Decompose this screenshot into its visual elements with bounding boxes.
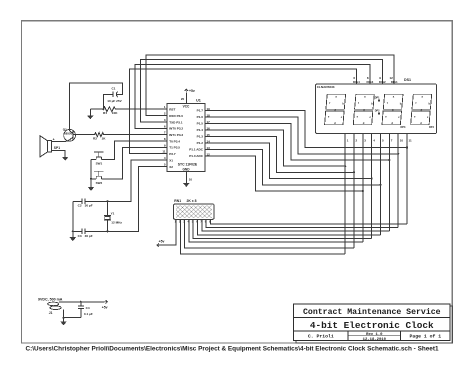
svg-text:10K: 10K <box>112 111 118 115</box>
svg-text:f: f <box>329 101 330 105</box>
svg-text:Y1: Y1 <box>111 211 115 215</box>
wire RN1 pin 5 to segment C <box>193 219 372 238</box>
svg-text:4-bit Electronic Clock: 4-bit Electronic Clock <box>310 320 434 331</box>
node C4 top junction dot <box>80 301 82 303</box>
svg-text:C2: C2 <box>78 204 82 208</box>
svg-text:C4: C4 <box>86 306 90 310</box>
svg-text:RN1: RN1 <box>174 199 181 203</box>
node C3 left junction dot <box>72 230 74 232</box>
power +5v at U1 pin 20 <box>181 89 195 101</box>
wire P1.5 to segment B pin 7 <box>205 123 389 160</box>
node segment E junction dot <box>344 165 346 167</box>
wire P1.1 to segment G pin 5 <box>205 149 381 185</box>
pin 8 DIG3 label <box>367 76 374 84</box>
capacitor C3 <box>73 229 108 238</box>
svg-text:DIG3: DIG3 <box>367 80 374 84</box>
svg-text:Rev 1.0: Rev 1.0 <box>366 333 383 337</box>
pin 4 X1 label <box>164 156 173 162</box>
display bottom pin number labels <box>347 138 412 142</box>
wire P1.2 to segment C pin 4 <box>205 143 372 179</box>
ground at R1 <box>87 109 94 119</box>
pin 16 P1.4 label <box>197 126 211 132</box>
wire switch common down <box>90 160 92 188</box>
wire C1 left to RST node <box>103 94 113 109</box>
switch SW2 <box>94 171 103 185</box>
svg-text:TXD P3.1: TXD P3.1 <box>169 120 183 124</box>
svg-text:VCC: VCC <box>183 105 190 109</box>
svg-text:9VDC, 500 mA: 9VDC, 500 mA <box>38 298 63 302</box>
wire P1.7 to segment A pin 11 <box>205 110 407 147</box>
power +5v terminal arrow <box>102 300 108 309</box>
svg-text:X2: X2 <box>169 165 173 169</box>
svg-text:SW2: SW2 <box>96 181 103 185</box>
wire Q1 emitter to C1 top rail <box>69 83 122 130</box>
colon DP2 dot <box>375 109 380 114</box>
svg-text:0.1 µF: 0.1 µF <box>84 312 93 316</box>
node segment G junction dot <box>379 184 381 186</box>
svg-text:T1 P3.5: T1 P3.5 <box>169 146 180 150</box>
pin 10 GND wire <box>185 172 187 183</box>
svg-text:C1: C1 <box>112 87 116 91</box>
svg-text:DP2: DP2 <box>375 109 380 112</box>
title block shadow <box>296 306 452 343</box>
wire bus P3.1 to DIG2 <box>141 60 383 122</box>
wire bus P3.7 to DIG4 <box>130 69 357 154</box>
ground at oscillator <box>70 237 77 241</box>
svg-text:P1.4: P1.4 <box>197 128 204 132</box>
wire RN1 pin 6 to segment G <box>198 219 381 235</box>
svg-text:12 MHz: 12 MHz <box>111 220 122 224</box>
svg-text:CLNAD5633: CLNAD5633 <box>317 85 335 89</box>
power +5v at RN1 <box>157 239 164 247</box>
pin 19 P1.7 label <box>197 107 211 113</box>
RN1 pin number labels <box>175 221 211 224</box>
svg-text:P1.1 ADC: P1.1 ADC <box>189 148 204 152</box>
svg-text:GND: GND <box>182 168 190 172</box>
svg-text:INT1 P3.3: INT1 P3.3 <box>169 133 183 137</box>
switch SW1 <box>94 152 103 166</box>
ground at power input <box>60 318 67 326</box>
wire oscillator left leg <box>72 201 74 237</box>
seven-segment digit 3 <box>382 94 403 125</box>
capacitor C4 <box>78 302 93 318</box>
svg-text:T0 P3.4: T0 P3.4 <box>169 139 180 143</box>
pin 18 P1.6 label <box>197 113 211 119</box>
wire RN1 pin 3 to segment D <box>185 219 354 248</box>
svg-text:C3: C3 <box>78 234 82 238</box>
svg-text:P1.6: P1.6 <box>197 115 204 119</box>
svg-text:RST: RST <box>169 108 175 112</box>
wire display pin 4 vertical <box>371 134 373 239</box>
wire P1.3 to segment D pin 2 <box>205 136 354 172</box>
wire display pin 5 vertical <box>380 134 382 235</box>
transistor Q1 S8550 <box>52 128 76 142</box>
speaker SP1 <box>40 136 60 157</box>
op-amp ic U1 STC 11F02E microcontroller <box>167 99 205 172</box>
svg-text:C:\Users\Christopher Prioli\Do: C:\Users\Christopher Prioli\Documents\El… <box>26 346 439 353</box>
svg-text:DP4: DP4 <box>429 126 434 129</box>
resistor network RN1 <box>174 199 215 219</box>
wire SW1 left to common <box>91 159 96 161</box>
svg-text:30 pF: 30 pF <box>85 234 93 238</box>
svg-text:10: 10 <box>189 178 193 182</box>
pin 15 P1.3 label <box>197 133 211 139</box>
node crystal bottom junction dot <box>106 230 108 232</box>
pin 6 INT0 P3.2 label <box>164 124 184 130</box>
power jack J1 <box>38 298 63 315</box>
wire RN1 pin 2 to segment E <box>180 219 345 254</box>
svg-text:P1.5: P1.5 <box>197 122 204 126</box>
wire display pin 11 vertical <box>406 134 408 224</box>
svg-text:10 µF 25V: 10 µF 25V <box>107 99 122 103</box>
wire SW1 to T0 pin 8 <box>102 141 168 160</box>
svg-text:J1: J1 <box>49 311 53 315</box>
crystal Y1 <box>104 201 122 231</box>
svg-text:SP1: SP1 <box>54 146 60 150</box>
wire RN1 pin 1 to +5v <box>160 219 176 245</box>
svg-text:11: 11 <box>162 150 166 154</box>
wire X1 pin 4 to crystal top <box>107 160 167 201</box>
node crystal top junction dot <box>106 200 108 202</box>
svg-text:STC 11F02E: STC 11F02E <box>178 163 198 167</box>
svg-text:Contract Maintenance Service: Contract Maintenance Service <box>303 307 441 317</box>
svg-text:P1.2: P1.2 <box>197 141 204 145</box>
wire display pin 1 vertical <box>344 134 346 254</box>
wire SP1 minus to ground <box>52 150 66 156</box>
svg-text:f: f <box>415 101 416 105</box>
pin 9 DIG2 label <box>379 76 386 84</box>
wire bus P3.0 to DIG1 <box>146 55 394 116</box>
node segment F junction dot <box>397 153 399 155</box>
wire J1 plus to +5v rail <box>59 301 105 303</box>
pin 5 X2 label <box>164 162 173 168</box>
svg-text:30 pF: 30 pF <box>85 204 93 208</box>
svg-text:12-18-2010: 12-18-2010 <box>363 338 387 342</box>
wire display pin 10 vertical <box>397 134 399 228</box>
svg-text:INT0 P3.2: INT0 P3.2 <box>169 127 183 131</box>
node segment D junction dot <box>353 171 355 173</box>
wire display pin 7 vertical <box>388 134 390 231</box>
pin 17 P1.5 label <box>197 120 211 126</box>
svg-text:+5v: +5v <box>102 305 108 309</box>
capacitor C2 <box>73 199 108 208</box>
node segment B junction dot <box>388 159 390 161</box>
svg-text:DIG4: DIG4 <box>353 80 360 84</box>
wire P1.6 to segment F pin 10 <box>205 117 398 154</box>
pin 6 DIG4 label <box>353 76 360 84</box>
seven-segment digit 2 <box>353 94 374 125</box>
node switch common junction dot <box>90 178 92 180</box>
colon DP1 dot <box>375 96 380 101</box>
svg-text:+5v: +5v <box>159 239 165 243</box>
svg-text:P3.7: P3.7 <box>169 152 176 156</box>
pin 14 P1.2 label <box>197 139 211 145</box>
svg-text:20: 20 <box>181 97 185 101</box>
svg-text:R2: R2 <box>93 137 97 141</box>
svg-text:DIG2: DIG2 <box>379 80 386 84</box>
svg-text:+: + <box>53 138 55 142</box>
wire display pin 3 vertical <box>362 134 364 243</box>
svg-text:+5v: +5v <box>189 89 195 93</box>
svg-text:f: f <box>358 101 359 105</box>
seven-segment digit 4 <box>411 94 432 125</box>
resistor R2 <box>73 133 167 141</box>
wire RN1 pin 8 to segment F <box>206 219 398 227</box>
svg-text:X1: X1 <box>169 158 173 162</box>
wire RN1 pin 9 to segment A <box>210 219 407 224</box>
svg-text:R1: R1 <box>103 111 107 115</box>
svg-text:P1.3: P1.3 <box>197 135 204 139</box>
border frame <box>21 21 452 343</box>
wire RN1 pin 4 to segment DP <box>189 219 363 242</box>
svg-text:P1.0 ADC: P1.0 ADC <box>189 154 204 158</box>
wire SW2 left to common <box>91 178 96 180</box>
svg-text:DP3: DP3 <box>401 126 406 129</box>
svg-text:S8550: S8550 <box>64 132 73 136</box>
svg-text:2K x 8: 2K x 8 <box>187 199 197 203</box>
svg-text:10: 10 <box>400 138 404 142</box>
wire SW2 to T1 pin 9 <box>102 147 168 179</box>
svg-text:Page 1 of 1: Page 1 of 1 <box>409 333 441 339</box>
svg-text:P1.7: P1.7 <box>197 109 204 113</box>
node RST junction dot <box>102 108 104 110</box>
pin 2 RXD P3.0 label <box>164 112 183 118</box>
pin 20 VCC wire <box>185 93 187 104</box>
wire RN1 pin 7 to segment B <box>202 219 389 231</box>
svg-text:SW1: SW1 <box>96 161 103 165</box>
pin 13 P1.1 ADC label <box>189 146 210 152</box>
wire X2 pin 5 to crystal bottom <box>107 166 167 231</box>
seven-segment digit 1 <box>325 94 346 125</box>
pin 12 P1.0 ADC label <box>189 152 210 158</box>
pin 3 TXD P3.1 label <box>164 118 183 124</box>
wire P1.4 to segment E pin 1 <box>205 130 345 166</box>
display DS1 CLNAD5633 <box>316 78 437 134</box>
svg-text:DP1: DP1 <box>375 96 380 99</box>
pin 12 DIG1 label <box>389 76 398 84</box>
wire P1.0 to segment DP pin 3 <box>205 156 363 191</box>
capacitor C1 <box>107 87 122 103</box>
svg-text:11: 11 <box>409 138 413 142</box>
wire display pin 2 vertical <box>353 134 355 248</box>
title block <box>294 304 451 342</box>
wire C4 bottom to J1 minus <box>64 310 81 318</box>
svg-text:DS1: DS1 <box>404 78 411 82</box>
svg-text:C. Prioli: C. Prioli <box>308 334 334 340</box>
pin 1 RST label <box>164 105 176 111</box>
ground at U1 pin 10 <box>183 178 192 187</box>
node segment A junction dot <box>406 147 408 149</box>
ground at switches <box>88 187 95 191</box>
svg-text:RXD P3.0: RXD P3.0 <box>169 114 183 118</box>
pin 9 T1 P3.5 label <box>164 143 180 149</box>
pin 7 INT1 P3.3 label <box>164 131 184 137</box>
node segment C junction dot <box>371 178 373 180</box>
svg-text:f: f <box>387 101 388 105</box>
svg-text:U1: U1 <box>196 99 201 103</box>
ground at SP1 <box>62 157 69 161</box>
node J1 minus junction dot <box>62 317 64 319</box>
pin 8 T0 P3.4 label <box>164 137 180 143</box>
resistor R1 <box>90 107 167 115</box>
node segment DP junction dot <box>362 190 364 192</box>
wire bus P3.2 to DIG3 <box>135 64 370 128</box>
pin 11 P3.7 label <box>162 150 176 156</box>
svg-text:DIG1: DIG1 <box>391 80 398 84</box>
